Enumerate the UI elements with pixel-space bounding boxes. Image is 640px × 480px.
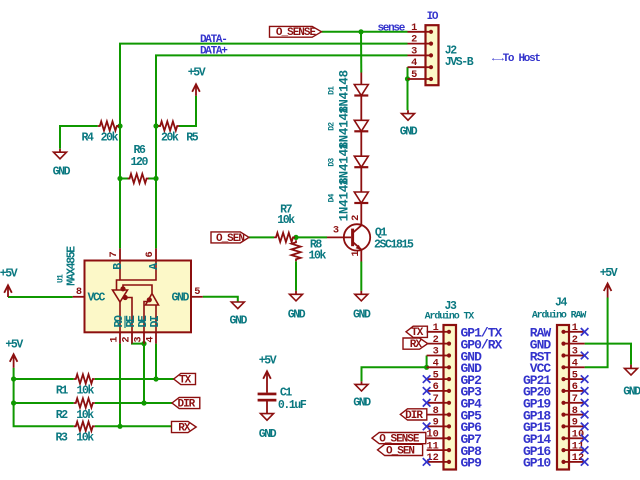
pin 9 J3 [427, 424, 452, 428]
wire GND to J3 pin4 [362, 367, 427, 381]
svg-text:7: 7 [433, 393, 439, 405]
no-connect X J4 pin 8 [581, 411, 589, 419]
U1 internal symbol [113, 261, 159, 333]
svg-text:2: 2 [572, 334, 578, 346]
wire node A to R5 [156, 125, 160, 127]
connector J4 body [557, 325, 569, 470]
svg-text:7: 7 [108, 251, 120, 257]
svg-text:4: 4 [411, 57, 417, 69]
pin 8 J4 [561, 413, 584, 417]
junction R7/R8/Q1 base [293, 235, 298, 240]
svg-text:6: 6 [144, 251, 156, 257]
svg-text:5: 5 [411, 69, 417, 81]
wire +5V to U1 VCC pin8 [8, 296, 73, 298]
resistor R5 20k [158, 121, 179, 130]
ground at J3 GND net [355, 381, 368, 391]
svg-text:10k: 10k [77, 384, 95, 397]
pin 2 J4 [561, 342, 584, 346]
junction R6 right [153, 176, 158, 181]
hier label DIR left [172, 397, 200, 408]
wire DATA- net (U1 B to J2 pin2) [120, 44, 408, 249]
svg-text:10k: 10k [308, 249, 326, 262]
hier label O_SENSE top [270, 26, 322, 37]
wire O_SEN to R7 [249, 236, 274, 238]
svg-text:GND: GND [259, 428, 277, 441]
no-connect X J4 pin 3 [581, 352, 589, 360]
svg-text:GND: GND [230, 315, 248, 328]
power +5V at R1-R3 [10, 354, 18, 368]
resistor R6 120 [128, 174, 149, 183]
svg-text:D3: D3 [328, 158, 337, 167]
svg-text:GND: GND [171, 292, 189, 305]
power +5V at C1 [263, 371, 271, 392]
svg-text:0.1uF: 0.1uF [278, 399, 307, 412]
pin 7 J4 [561, 401, 584, 405]
svg-text:4: 4 [433, 358, 439, 370]
RE overline [124, 316, 126, 328]
junction J3 pin3/pin4 GND [424, 365, 429, 370]
ground at J4 GND net [625, 365, 638, 375]
ground at C1 [261, 414, 274, 421]
svg-text:1: 1 [433, 322, 439, 334]
pin 9 J4 [561, 424, 584, 428]
svg-text:R4: R4 [81, 131, 94, 144]
resistor R4 20k [98, 121, 119, 130]
svg-text:11: 11 [572, 440, 584, 452]
junction RO/RX row [117, 424, 122, 429]
pin 3 J4 [561, 353, 584, 357]
svg-text:O_SEN: O_SEN [216, 233, 244, 245]
svg-text:20k: 20k [161, 131, 179, 144]
svg-text:D4: D4 [328, 193, 337, 202]
wire +5V riser to R3 [14, 368, 74, 427]
op-amp U1 MAX485E body [85, 261, 192, 333]
svg-text:R6: R6 [133, 144, 146, 157]
wire R5 to +5V [179, 96, 196, 126]
pin 1 J3 [427, 330, 452, 334]
svg-text:5: 5 [194, 286, 200, 298]
pin 6 J3 [427, 389, 452, 393]
U1 pins stubs [73, 248, 203, 343]
svg-text:GND: GND [623, 385, 640, 398]
connector J2 body [426, 25, 439, 85]
pin 10 J3 [427, 436, 452, 440]
hier label TX at J3 [406, 326, 427, 337]
hier label O_SENSE at J3 [372, 433, 426, 444]
svg-text:3: 3 [411, 45, 417, 57]
pin 11 J4 [561, 448, 584, 452]
svg-text:R2: R2 [56, 409, 69, 422]
svg-text:11: 11 [426, 440, 438, 452]
svg-text:4: 4 [572, 358, 578, 370]
svg-text:GND: GND [353, 308, 371, 321]
no-connect X J3 pin 7 [423, 399, 431, 407]
svg-text:GP10: GP10 [523, 456, 551, 471]
diode D3 1N4148 [354, 156, 368, 167]
wire U1 DE pin3 down to DIR row [143, 344, 145, 403]
svg-text:20k: 20k [101, 131, 119, 144]
svg-text:C1: C1 [280, 386, 293, 399]
ground at R4 [54, 149, 67, 159]
svg-text:3: 3 [572, 346, 578, 358]
svg-text:RX: RX [178, 422, 191, 434]
transistor Q1 2SC1815 [327, 224, 370, 261]
no-connect X J4 pin 5 [581, 375, 589, 383]
pin 5 J4 [561, 377, 584, 381]
pin 12 J4 [561, 460, 584, 464]
wire diode chain (sense to Q1 collector) [360, 73, 362, 225]
svg-text:10k: 10k [277, 214, 295, 227]
no-connect X J4 pin 9 [581, 423, 589, 431]
svg-text:Arduino TX: Arduino TX [425, 310, 475, 322]
svg-text:1: 1 [350, 250, 362, 256]
svg-text:←→To Host: ←→To Host [492, 53, 540, 65]
junction +5V/R1 [11, 376, 16, 381]
pin 11 J3 [427, 448, 452, 452]
pin 7 J3 [427, 401, 452, 405]
svg-text:+5V: +5V [0, 267, 18, 280]
svg-text:1: 1 [572, 322, 578, 334]
svg-text:+5V: +5V [259, 355, 277, 368]
svg-text:DI: DI [149, 315, 162, 328]
junction RE/DE tie [141, 341, 146, 346]
pin 4 J2 [408, 65, 434, 69]
no-connect X J3 pin 9 [423, 423, 431, 431]
no-connect X J3 pin 5 [423, 375, 431, 383]
no-connect X J4 pin 6 [581, 387, 589, 395]
wire J4 pin2 GND to GND symbol [585, 344, 631, 365]
no-connect X J4 pin 1 [581, 328, 589, 336]
resistor R3 10k [74, 422, 95, 431]
connector J3 body [444, 325, 457, 470]
svg-text:RX: RX [410, 339, 423, 351]
svg-text:120: 120 [131, 156, 149, 169]
resistor R7 10k [274, 233, 295, 242]
wire J4 pin4 VCC to +5V [585, 298, 608, 368]
svg-text:12: 12 [572, 452, 584, 464]
svg-text:DIR: DIR [177, 398, 195, 410]
pin 2 J3 [427, 342, 452, 346]
svg-text:J4: J4 [555, 297, 568, 310]
svg-text:GND: GND [400, 126, 418, 139]
svg-text:5: 5 [433, 369, 439, 381]
pin 12 J3 [427, 460, 452, 464]
svg-text:DIR: DIR [405, 410, 423, 422]
svg-text:10: 10 [426, 429, 438, 441]
svg-text:O_SEN: O_SEN [386, 445, 414, 457]
hier label RX left [172, 421, 197, 432]
wire R7 to Q1 base node [295, 236, 327, 238]
svg-text:10k: 10k [76, 432, 94, 445]
svg-text:8: 8 [433, 405, 439, 417]
wire J3 pin3 to pin4 node [426, 356, 428, 368]
junction J2 pin5 GND node [405, 76, 410, 81]
svg-text:Arduino RAW: Arduino RAW [532, 309, 587, 321]
wire Q1 emitter to GND [360, 262, 362, 291]
wire U1 GND pin5 to GND [203, 297, 238, 302]
svg-text:2: 2 [121, 336, 133, 342]
wire R4 right to node B [117, 125, 120, 127]
wire DATA+ net (U1 A to J2 pin3) [156, 55, 408, 248]
junction DE/DIR row [141, 400, 146, 405]
wire U1 RO pin1 down to RX row [119, 344, 121, 427]
ground at Q1 emitter [355, 291, 368, 301]
svg-text:DATA-: DATA- [200, 34, 227, 46]
pin 2 J2 [408, 42, 434, 46]
svg-text:2SC1815: 2SC1815 [374, 239, 414, 252]
wire U1 DI pin4 down to TX row [155, 344, 157, 379]
svg-text:2: 2 [350, 215, 362, 221]
junction R6 left [117, 176, 122, 181]
svg-text:3: 3 [133, 336, 145, 342]
wire R8 to GND [295, 261, 297, 291]
svg-text:5: 5 [572, 369, 578, 381]
pin 1 J4 [561, 330, 584, 334]
no-connect X J4 pin 11 [581, 446, 589, 454]
wire +5V node to R2 [14, 402, 74, 404]
svg-text:MAX485E: MAX485E [65, 246, 78, 286]
wire R6 to node A [148, 178, 156, 180]
pin 6 J4 [561, 389, 584, 393]
pin 5 J2 [408, 77, 434, 81]
capacitor C1 0.1uF [258, 393, 277, 414]
svg-text:10k: 10k [76, 409, 94, 422]
ground at U1 pin5 [231, 302, 244, 309]
pin 3 J2 [408, 53, 434, 57]
junction sense node [358, 29, 363, 34]
wire U1 RE pin2 to DE pin3 [132, 343, 144, 344]
pin 10 J4 [561, 436, 584, 440]
svg-text:O_SENSE: O_SENSE [276, 27, 317, 39]
svg-text:3: 3 [433, 346, 439, 358]
svg-text:1: 1 [109, 336, 121, 342]
wire R4 left to GND [60, 126, 98, 149]
wire J2 pin4/pin5 to GND [407, 67, 409, 110]
hier label RX at J3 [403, 338, 428, 349]
no-connect X J3 pin 6 [423, 387, 431, 395]
svg-text:8: 8 [76, 286, 82, 298]
no-connect X J4 pin 12 [581, 458, 589, 466]
svg-text:GND: GND [288, 308, 306, 321]
svg-text:+5V: +5V [600, 267, 618, 280]
svg-text:R3: R3 [55, 432, 68, 445]
wire sense node down to diode stack [360, 32, 362, 73]
pin 5 J3 [427, 377, 452, 381]
ground at J2 [402, 110, 415, 120]
svg-text:sense: sense [377, 23, 405, 35]
svg-text:JVS-B: JVS-B [445, 56, 474, 69]
svg-text:1: 1 [411, 22, 417, 34]
diode D1 1N4148 [354, 85, 368, 96]
junction +5V/R2 [11, 400, 16, 405]
power +5V at J4 VCC [604, 284, 612, 298]
junction R4/node B [117, 123, 122, 128]
diode D2 1N4148 [354, 120, 368, 131]
pin 4 J3 [427, 365, 452, 369]
pin 8 J3 [427, 413, 452, 417]
pin 3 J3 [427, 353, 452, 357]
wire R1 to TX label [95, 378, 174, 380]
hier label O_SEN at J3 [378, 444, 423, 455]
diode D4 1N4148 [354, 192, 368, 203]
wire R3 to RX label [95, 425, 172, 427]
resistor R1 10k [74, 374, 95, 383]
svg-text:VCC: VCC [88, 292, 106, 305]
ground at R8 [290, 291, 303, 301]
wire +5V node to R1 [14, 378, 74, 380]
power +5V at U1 VCC [4, 285, 12, 297]
svg-text:2: 2 [433, 334, 439, 346]
svg-text:D2: D2 [328, 122, 337, 131]
hier label O_SEN [211, 232, 249, 243]
resistor R8 10k [291, 240, 300, 261]
svg-text:+5V: +5V [188, 67, 206, 80]
power +5V at R5 [192, 84, 200, 96]
svg-text:GND: GND [53, 166, 71, 179]
pin 4 J4 [561, 365, 584, 369]
svg-text:Q1: Q1 [375, 226, 388, 239]
svg-text:7: 7 [572, 393, 578, 405]
svg-text:10: 10 [572, 429, 584, 441]
svg-text:3: 3 [333, 225, 339, 237]
svg-text:D1: D1 [328, 86, 337, 95]
svg-text:6: 6 [572, 381, 578, 393]
svg-text:R5: R5 [186, 131, 199, 144]
junction DI/TX row [153, 376, 158, 381]
svg-text:U1: U1 [57, 274, 66, 283]
svg-text:12: 12 [426, 452, 438, 464]
svg-text:R1: R1 [56, 384, 69, 397]
resistor R2 10k [74, 398, 95, 407]
wire R2 to DIR label [95, 402, 172, 404]
svg-text:IO: IO [427, 11, 439, 23]
svg-text:6: 6 [433, 381, 439, 393]
no-connect X J4 pin 10 [581, 435, 589, 443]
wire node B to R6 [120, 178, 130, 180]
no-connect X J4 pin 7 [581, 399, 589, 407]
svg-text:4: 4 [145, 336, 157, 342]
wire O_SENSE to J2 pin1 (sense) [322, 31, 408, 33]
svg-text:9: 9 [572, 417, 578, 429]
svg-text:TX: TX [179, 374, 192, 386]
hier label DIR at J3 [400, 409, 427, 420]
hier label TX left [174, 373, 196, 384]
svg-text:DATA+: DATA+ [200, 46, 228, 58]
no-connect X J3 pin 12 [423, 458, 431, 466]
pin 1 J2 [408, 30, 434, 34]
svg-text:+5V: +5V [5, 338, 23, 351]
junction R5/node A [153, 123, 158, 128]
svg-text:GND: GND [353, 396, 371, 409]
svg-text:GP9: GP9 [461, 456, 483, 471]
svg-text:9: 9 [433, 417, 439, 429]
svg-text:8: 8 [572, 405, 578, 417]
svg-text:2: 2 [411, 34, 417, 46]
